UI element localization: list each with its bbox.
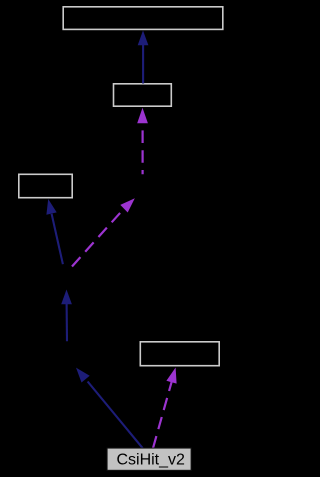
inheritance arrow hidden node to box3 (solid) xyxy=(46,199,63,264)
usage arrow hidden node to box2 (dashed) xyxy=(137,108,148,174)
node box 1 (top, unlabeled) xyxy=(63,7,223,30)
svg-text:CsiHit_v2: CsiHit_v2 xyxy=(116,452,185,469)
node box 3 (left, unlabeled) xyxy=(19,174,72,197)
node box 4 (right, unlabeled) xyxy=(140,342,219,366)
usage arrow hidden node toward hidden node (dashed diagonal) xyxy=(72,198,135,266)
usage arrow CsiHit_v2 to box4 (dashed diagonal) xyxy=(153,368,177,449)
inheritance arrow hidden node to hidden node (solid vertical) xyxy=(61,290,72,342)
inheritance arrow box2 to box1 (solid) xyxy=(138,31,149,84)
inheritance arrow CsiHit_v2 to hidden node (solid diagonal) xyxy=(76,368,143,449)
node box 2 (second, unlabeled) xyxy=(114,84,172,106)
node CsiHit_v2 (current class, filled) xyxy=(107,448,191,470)
